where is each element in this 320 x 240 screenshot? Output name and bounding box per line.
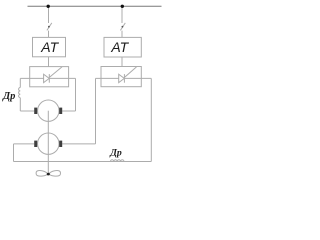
svg-text:Др: Др	[2, 91, 15, 102]
svg-text:AT: AT	[110, 39, 129, 55]
svg-text:Др: Др	[109, 148, 122, 159]
svg-text:AT: AT	[40, 39, 59, 55]
